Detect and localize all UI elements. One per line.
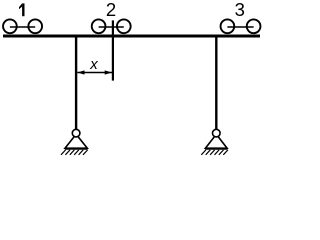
support right base line — [205, 148, 227, 150]
support left pin circle — [72, 129, 80, 137]
trolley 3 wheel left — [221, 19, 235, 33]
trolley 3 axle — [227, 26, 253, 28]
post right — [215, 36, 217, 130]
beam — [3, 35, 260, 38]
support right ground hatching — [201, 150, 228, 155]
support left ground hatching — [61, 150, 88, 155]
trolley 2 wheel left — [92, 19, 106, 33]
dimension arrowhead left — [77, 70, 84, 74]
svg-text:3: 3 — [235, 0, 245, 20]
support right triangle — [205, 134, 227, 148]
svg-text:x: x — [89, 56, 98, 73]
svg-text:2: 2 — [106, 0, 116, 20]
dimension x line — [77, 72, 112, 74]
support left base line — [65, 148, 88, 150]
post left — [75, 36, 77, 130]
dimension arrowhead right — [105, 70, 112, 74]
pin support left — [61, 129, 88, 155]
trolley 2 wheel right — [117, 19, 131, 33]
trolley 1 axle — [10, 26, 35, 28]
trolley 3 wheel right — [247, 19, 261, 33]
pin support right — [201, 129, 228, 155]
support left triangle — [65, 134, 87, 148]
trolley 1 wheel right — [28, 19, 42, 33]
label 1 — [19, 3, 25, 16]
extension line at trolley 2 — [112, 20, 114, 80]
trolley 2 axle — [99, 26, 124, 28]
trolley 1 wheel left — [3, 19, 17, 33]
support right pin circle — [213, 129, 221, 137]
